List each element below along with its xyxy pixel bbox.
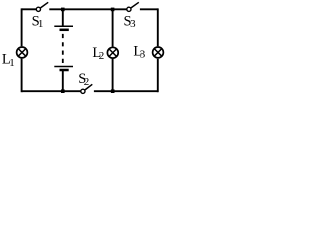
wire top rail right segment bbox=[140, 8, 158, 10]
wire lamp L2 branch top bbox=[112, 9, 114, 46]
node L2 top junction bbox=[111, 8, 115, 12]
lamp L2 bbox=[107, 47, 118, 58]
svg-text:3: 3 bbox=[130, 18, 136, 30]
wire right rail upper bbox=[157, 8, 159, 46]
battery cell 1 bbox=[54, 26, 73, 30]
label S3 bbox=[124, 13, 137, 30]
node L2 bottom junction bbox=[111, 89, 115, 93]
label S1 bbox=[32, 13, 44, 30]
svg-text:1: 1 bbox=[38, 18, 44, 30]
lamp L1 bbox=[17, 47, 28, 58]
switch S2 bbox=[81, 84, 93, 93]
wire battery branch bottom bbox=[62, 70, 64, 91]
battery cell 2 bbox=[54, 67, 73, 71]
wire lamp L2 branch bottom bbox=[112, 59, 114, 91]
wire right rail lower bbox=[157, 59, 159, 92]
node battery top junction bbox=[61, 8, 65, 12]
wire top rail middle segment bbox=[49, 8, 126, 10]
wire battery dashed (more cells) bbox=[62, 34, 64, 63]
svg-text:2: 2 bbox=[84, 76, 90, 88]
wire top rail left segment bbox=[22, 8, 37, 10]
wire left rail upper bbox=[21, 8, 23, 46]
node battery bottom junction bbox=[61, 89, 65, 93]
wire left rail lower bbox=[21, 59, 23, 93]
wire bottom rail right segment bbox=[94, 90, 158, 92]
label L1 bbox=[2, 52, 15, 69]
wire battery branch top bbox=[62, 9, 64, 26]
switch S3 bbox=[127, 2, 139, 11]
svg-text:1: 1 bbox=[9, 57, 15, 69]
label L2 bbox=[92, 45, 104, 62]
svg-text:2: 2 bbox=[99, 50, 105, 62]
svg-text:3: 3 bbox=[140, 49, 146, 61]
lamp L3 bbox=[153, 47, 164, 58]
label S2 bbox=[78, 71, 89, 88]
wire bottom rail left segment bbox=[22, 90, 81, 92]
switch S1 bbox=[36, 2, 48, 11]
label L3 bbox=[133, 44, 145, 61]
